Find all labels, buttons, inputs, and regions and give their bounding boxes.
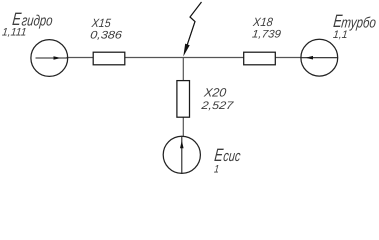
arrow inside left source (points right) bbox=[36, 57, 68, 59]
svg-text:1,111: 1,111 bbox=[1, 26, 27, 38]
svg-text:X15: X15 bbox=[90, 16, 112, 30]
generator Eтурбо (right source circle) bbox=[301, 39, 338, 76]
wire: X20 to bottom source bbox=[182, 117, 184, 137]
svg-text:1,1: 1,1 bbox=[332, 29, 348, 41]
fault lightning bolt striking node bbox=[187, 2, 202, 47]
wire: node down to X20 bbox=[182, 58, 184, 82]
svg-text:X18: X18 bbox=[252, 15, 274, 29]
wire: X18 to right source bbox=[275, 57, 302, 59]
arrow inside bottom source (points up) bbox=[181, 136, 183, 173]
svg-text:2,527: 2,527 bbox=[200, 100, 235, 112]
svg-text:сис: сис bbox=[223, 148, 242, 165]
arrow inside right source (points left) bbox=[301, 57, 338, 59]
generator Eгидро (left source circle) bbox=[31, 40, 68, 77]
resistor X20 (vertical) bbox=[177, 81, 190, 118]
wire: X15 to X18 (main bus through fault node) bbox=[125, 57, 245, 59]
resistor X18 bbox=[244, 52, 276, 65]
resistor X15 bbox=[93, 52, 125, 65]
svg-text:1,739: 1,739 bbox=[252, 28, 282, 40]
svg-text:0,386: 0,386 bbox=[90, 29, 124, 41]
wire: left source to X15 bbox=[67, 57, 94, 59]
generator Eсис (bottom source circle) bbox=[163, 136, 200, 173]
svg-text:X20: X20 bbox=[202, 86, 227, 100]
